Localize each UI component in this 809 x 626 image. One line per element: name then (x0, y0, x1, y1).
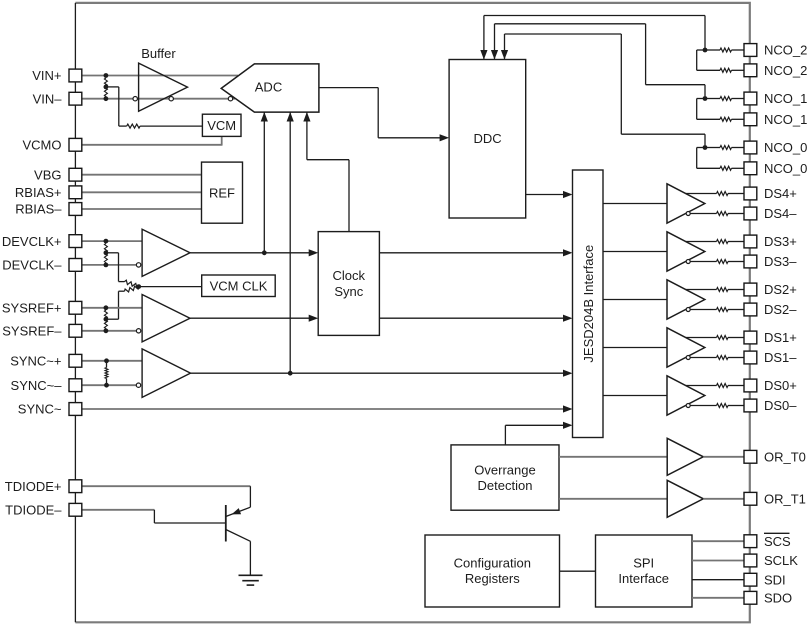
wire DS1- net (690, 357, 716, 359)
pin DS3+ (744, 235, 757, 248)
wire SYNC~ termination upper (106, 361, 108, 368)
arrow into DDC from ADC (440, 134, 450, 141)
node SYSREF mid junction (104, 317, 109, 322)
wire SYSREF+ net (82, 307, 142, 309)
wire TDIODE- net (82, 509, 154, 511)
resistor VCM CLK lower (125, 286, 139, 292)
pin SYNC~– (69, 379, 82, 392)
wire DEVCLK buffered clock (190, 252, 314, 254)
pin NCO_2 (744, 64, 757, 77)
wire DS1+ net (686, 337, 717, 339)
pin NCO_0 (744, 162, 757, 175)
wire SCLK net (692, 560, 744, 562)
arrow into JESD204B sync single (563, 405, 573, 412)
svg-text:TDIODE–: TDIODE– (5, 503, 62, 518)
arrow into JESD204B clock (563, 249, 573, 256)
wire NCO_0 lower net (697, 147, 705, 149)
op-amp inversion bubble DS0- (686, 404, 690, 408)
resistor DS4+ (717, 192, 729, 196)
svg-text:NCO_1: NCO_1 (764, 112, 807, 127)
pin SDI (744, 573, 757, 586)
wire overrange OR_T0 (559, 456, 667, 458)
buffer amplifier SYSREF (142, 295, 190, 342)
svg-text:DS4+: DS4+ (764, 186, 797, 201)
node NCO_2 junction (703, 48, 708, 53)
pin SYNC~ (69, 403, 82, 416)
resistor DS2+ (717, 288, 729, 292)
wire OR_T1 net (703, 498, 744, 500)
transistor Q1 temperature diode (225, 505, 227, 542)
arrow into ADC from clock sync (303, 112, 310, 122)
node VIN- junction (104, 96, 109, 101)
wire NCO_1 feedback (494, 24, 496, 59)
pin NCO_1 (744, 113, 757, 126)
chip boundary left edge (74, 3, 76, 622)
pin VIN+ (69, 69, 82, 82)
resistor DS0+ (717, 384, 729, 388)
pin SYSREF+ (69, 301, 82, 314)
wire ADC output (319, 87, 378, 89)
wire VBG net (82, 174, 202, 176)
svg-text:VCMO: VCMO (23, 138, 62, 153)
resistor VIN termination (104, 78, 107, 96)
svg-text:Buffer: Buffer (141, 46, 176, 61)
arrow into JESD204B sync (563, 370, 573, 377)
resistor DS4- (717, 212, 729, 216)
buffer amplifier OR_T1 driver (667, 480, 703, 517)
svg-text:Overrange: Overrange (474, 462, 535, 477)
wire DS4- net (690, 213, 716, 215)
op-amp inversion bubble DS1- (686, 356, 690, 360)
svg-text:VBG: VBG (34, 167, 61, 182)
op-amp inversion bubble SYNC~- (136, 383, 140, 387)
op-amp inversion bubble DS3- (686, 260, 690, 264)
svg-text:Interface: Interface (618, 571, 669, 586)
node SYSREF+ junction (104, 305, 109, 310)
block VCM CLK (202, 275, 276, 297)
pin DEVCLK– (69, 259, 82, 272)
wire DEVCLK mid tap (106, 252, 119, 254)
wire overrange to JESD204B (504, 425, 506, 445)
resistor NCO_2 upper (720, 48, 732, 52)
svg-text:OR_T1: OR_T1 (764, 492, 806, 507)
resistor DS3- (717, 260, 729, 264)
svg-text:JESD204B Interface: JESD204B Interface (581, 245, 596, 363)
wire OR_T0 net (703, 456, 744, 458)
svg-text:TDIODE+: TDIODE+ (5, 479, 62, 494)
arrow into JESD204B from DDC (563, 191, 573, 198)
block Overrange Detection (451, 445, 559, 510)
wire DS0- net (690, 405, 716, 407)
svg-text:VCM CLK: VCM CLK (210, 278, 268, 293)
op-amp inversion bubble SYSREF- (136, 329, 140, 333)
wire RBIAS+ net (82, 191, 202, 193)
pin SCS (744, 535, 757, 548)
wire DS0+ net (686, 385, 717, 387)
wire TDIODE+ net (82, 485, 250, 487)
svg-text:SDI: SDI (764, 572, 786, 587)
wire overrange OR_T1 (559, 498, 667, 500)
wire DS3- net (690, 261, 716, 263)
wire NCO_1 lower net (697, 98, 705, 100)
arrow into DDC nco1 (491, 50, 498, 60)
block JESD204B Interface (573, 170, 604, 438)
svg-text:DDC: DDC (474, 131, 502, 146)
svg-text:DS2–: DS2– (764, 302, 797, 317)
wire DS3+ net (686, 241, 717, 243)
node DEVCLK+ junction (104, 239, 109, 244)
resistor DS2- (717, 308, 729, 312)
node VIN mid junction (104, 85, 109, 90)
arrow into ADC from clock (261, 112, 268, 122)
wire JESD204B to DS1 driver (603, 347, 667, 349)
resistor DS0- (717, 404, 729, 408)
buffer amplifier SYNC~ (142, 349, 190, 398)
buffer amplifier input buffer (139, 63, 188, 111)
buffer amplifier DS4 driver (667, 184, 705, 223)
wire NCO_0 feedback (504, 34, 506, 59)
wire DEVCLK- net (82, 264, 137, 266)
svg-text:SYNC~: SYNC~ (18, 402, 62, 417)
wire JESD204B to DS3 driver (603, 251, 667, 253)
wire NCO_2 feedback (483, 16, 485, 60)
svg-text:SYSREF–: SYSREF– (2, 324, 62, 339)
arrow into JESD204B sysref (563, 315, 573, 322)
pin SDO (744, 591, 757, 604)
wire SDI net (692, 579, 744, 581)
resistor DS1- (717, 356, 729, 360)
svg-text:SCLK: SCLK (764, 553, 798, 568)
resistor DS3+ (717, 240, 729, 244)
svg-text:SDO: SDO (764, 591, 792, 606)
arrow into DDC nco0 (501, 50, 508, 60)
arrow into Clock Sync sysref (309, 315, 319, 322)
resistor NCO_1 upper (720, 97, 732, 101)
svg-text:DS3+: DS3+ (764, 234, 797, 249)
block VCM (202, 114, 241, 136)
wire DS2+ net (686, 289, 717, 291)
svg-text:RBIAS–: RBIAS– (15, 202, 62, 217)
resistor DS1+ (717, 336, 729, 340)
svg-text:SYSREF+: SYSREF+ (2, 301, 62, 316)
svg-text:OR_T0: OR_T0 (764, 450, 806, 465)
pin VIN– (69, 92, 82, 105)
resistor DEVCLK termination (104, 243, 107, 262)
pin TDIODE– (69, 503, 82, 516)
resistor SYSREF termination (104, 310, 107, 328)
pin OR_T1 (744, 492, 757, 505)
svg-text:SPI: SPI (633, 555, 654, 570)
node NCO_1 junction (703, 96, 708, 101)
resistor NCO_0 upper (720, 146, 732, 150)
svg-text:REF: REF (209, 185, 235, 200)
wire VIN- net (82, 98, 235, 100)
node clock junction (262, 250, 267, 255)
pin NCO_2 (744, 44, 757, 57)
svg-text:NCO_0: NCO_0 (764, 161, 807, 176)
svg-text:DS0–: DS0– (764, 398, 797, 413)
svg-text:RBIAS+: RBIAS+ (15, 185, 62, 200)
op-amp inversion bubble DS2- (686, 308, 690, 312)
resistor NCO_0 lower (720, 166, 732, 170)
wire clock to ADC (263, 113, 265, 253)
svg-text:Clock: Clock (333, 268, 366, 283)
pin DS2+ (744, 283, 757, 296)
wire RBIAS- net (82, 208, 202, 210)
wire VCMO net (82, 144, 222, 146)
buffer amplifier DS2 driver (667, 280, 705, 319)
block DDC (449, 60, 526, 219)
resistor VCM CLK upper (125, 280, 139, 288)
pin RBIAS+ (69, 186, 82, 199)
wire JESD204B to DS4 driver (603, 203, 667, 205)
wire JESD204B to DS0 driver (603, 395, 667, 397)
overline for active-low SCS (764, 532, 790, 534)
svg-text:VIN–: VIN– (33, 91, 63, 106)
wire SYNC~ buffered (191, 372, 568, 374)
resistor SYNC~ termination (105, 368, 108, 379)
svg-text:DS1+: DS1+ (764, 330, 797, 345)
svg-text:Configuration: Configuration (454, 555, 531, 570)
op-amp inversion bubble DEVCLK- (136, 263, 140, 267)
wire clock sync to ADC (348, 160, 350, 232)
wire DS2- net (690, 309, 716, 311)
pin DS0– (744, 399, 757, 412)
pin DS4– (744, 207, 757, 220)
svg-text:DS2+: DS2+ (764, 282, 797, 297)
svg-text:SYNC~+: SYNC~+ (10, 354, 61, 369)
wire VIN common-mode tap (106, 86, 119, 88)
pin DS1+ (744, 331, 757, 344)
svg-text:DEVCLK+: DEVCLK+ (2, 234, 62, 249)
op-amp inversion bubble ADC input (228, 97, 232, 101)
wire NCO_1 upper net (705, 98, 720, 100)
arrow into JESD204B overrange (563, 422, 573, 429)
block Configuration Registers (425, 535, 560, 607)
pin SCLK (744, 554, 757, 567)
wire SYSREF mid tap (106, 318, 119, 320)
wire sync to ADC (289, 113, 291, 374)
wire NCO_2 lower net (697, 49, 705, 51)
block SPI Interface (596, 535, 693, 607)
svg-text:VIN+: VIN+ (32, 68, 61, 83)
pin OR_T0 (744, 450, 757, 463)
arrow into ADC from sync (287, 112, 294, 122)
svg-text:ADC: ADC (255, 80, 282, 95)
svg-text:DS1–: DS1– (764, 350, 797, 365)
arrow into Clock Sync devclk (309, 249, 319, 256)
svg-text:VCM: VCM (207, 118, 236, 133)
node sync junction (288, 371, 293, 376)
wire SYNC~- net (82, 384, 136, 386)
wire JESD204B to DS2 driver (603, 299, 667, 301)
buffer amplifier DS3 driver (667, 232, 705, 271)
pin TDIODE+ (69, 480, 82, 493)
block ADC (221, 64, 319, 112)
op-amp inversion bubble buffer output (169, 97, 173, 101)
pin SYSREF– (69, 324, 82, 337)
pin NCO_1 (744, 92, 757, 105)
block Clock Sync (318, 232, 379, 336)
svg-text:DS3–: DS3– (764, 254, 797, 269)
buffer amplifier DS0 driver (667, 376, 705, 415)
buffer amplifier DEVCLK (142, 229, 190, 276)
wire NCO_2 upper net (705, 49, 720, 51)
svg-text:NCO_2: NCO_2 (764, 63, 807, 78)
svg-text:SYNC~–: SYNC~– (11, 378, 63, 393)
wire DDC to JESD204B (526, 194, 568, 196)
wire VIN+ net (82, 75, 238, 77)
svg-text:DS0+: DS0+ (764, 378, 797, 393)
pin DS4+ (744, 187, 757, 200)
node SYSREF- junction (104, 328, 109, 333)
svg-text:Sync: Sync (334, 284, 363, 299)
arrow into DDC nco2 (480, 50, 487, 60)
pin RBIAS– (69, 203, 82, 216)
wire config to SPI (560, 570, 596, 572)
wire SYNC~ termination lower (106, 379, 108, 386)
wire SYNC~ single-ended net (82, 408, 564, 410)
wire SYSREF- net (82, 330, 137, 332)
svg-text:NCO_1: NCO_1 (764, 91, 807, 106)
node VIN+ junction (104, 73, 109, 78)
pin DS3– (744, 255, 757, 268)
wire clock sync to JESD204B clock (379, 252, 567, 254)
op-amp inversion bubble buffer input (133, 97, 137, 101)
wire SDO net (692, 597, 744, 599)
pin DS2– (744, 303, 757, 316)
wire transistor emitter to ground (249, 541, 251, 574)
pin VBG (69, 168, 82, 181)
pin SYNC~+ (69, 354, 82, 367)
node VCM CLK tap junction (136, 284, 141, 289)
buffer amplifier OR_T0 driver (667, 438, 703, 475)
pin VCMO (69, 138, 82, 151)
pin DS1– (744, 351, 757, 364)
node SYNC~- junction (104, 383, 109, 388)
buffer amplifier DS1 driver (667, 328, 705, 367)
resistor NCO_1 lower (720, 117, 732, 121)
svg-text:NCO_0: NCO_0 (764, 140, 807, 155)
pin NCO_0 (744, 141, 757, 154)
svg-text:SCS: SCS (764, 534, 791, 549)
ground (239, 574, 263, 576)
wire NCO_0 upper net (705, 147, 720, 149)
resistor VCM feed (127, 124, 140, 128)
svg-text:NCO_2: NCO_2 (764, 43, 807, 58)
svg-text:Detection: Detection (478, 478, 533, 493)
node DEVCLK mid junction (104, 250, 109, 255)
op-amp inversion bubble DS4- (686, 212, 690, 216)
svg-text:DEVCLK–: DEVCLK– (2, 258, 62, 273)
node DEVCLK- junction (104, 263, 109, 268)
wire DEVCLK+ net (82, 240, 142, 242)
svg-text:DS4–: DS4– (764, 206, 797, 221)
wire SYNC~+ net (82, 360, 142, 362)
wire DS4+ net (686, 193, 717, 195)
resistor NCO_2 lower (720, 68, 732, 72)
wire clock sync to JESD204B sysref (379, 317, 567, 319)
wire SCS net (692, 540, 744, 542)
pin DS0+ (744, 379, 757, 392)
wire SYSREF buffered (190, 317, 314, 319)
node SYNC~+ junction (104, 358, 109, 363)
pin DEVCLK+ (69, 235, 82, 248)
node NCO_0 junction (703, 145, 708, 150)
block REF (202, 162, 243, 223)
svg-text:Registers: Registers (465, 571, 520, 586)
wire VCM CLK net (139, 286, 202, 288)
